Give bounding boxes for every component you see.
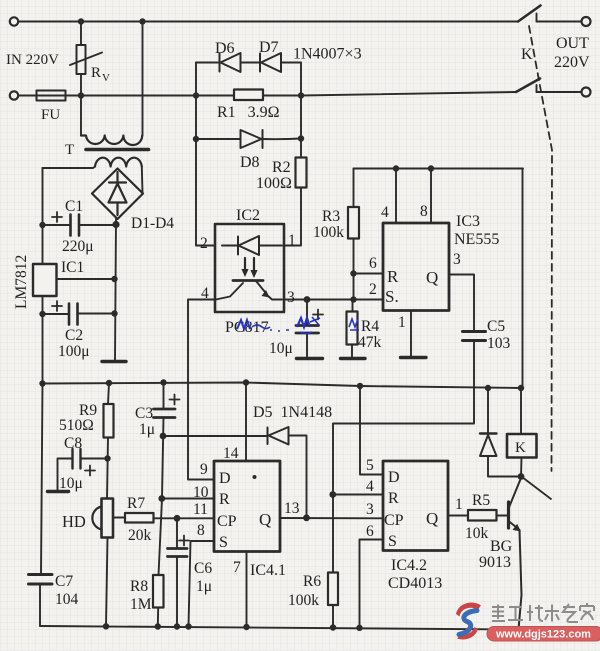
svg-text:D1-D4: D1-D4 — [131, 215, 174, 232]
wire R8 to bus — [157, 608, 159, 627]
wire R9 HD column — [108, 383, 109, 404]
wire HD to R7 — [114, 517, 126, 519]
flyback diode — [480, 388, 521, 477]
node C2 left — [39, 311, 45, 317]
optocoupler IC2 box — [215, 224, 284, 312]
wire L phase top — [18, 21, 518, 23]
svg-text:C7: C7 — [55, 573, 73, 590]
svg-text:4: 4 — [381, 204, 389, 221]
diode D6 — [220, 53, 241, 72]
svg-text:10k: 10k — [465, 525, 489, 542]
transformer T core — [86, 148, 149, 152]
relay coil K box — [507, 434, 537, 458]
IC2 internal LED — [222, 236, 282, 255]
wire R7 to IC4.1 CP — [154, 517, 215, 519]
svg-text:4: 4 — [201, 285, 209, 302]
svg-text:7: 7 — [233, 559, 241, 576]
node wire1-Rv — [78, 18, 84, 24]
node bus emitter — [515, 626, 521, 632]
watermark logo — [456, 603, 481, 640]
resistor R2 — [296, 158, 307, 188]
regulator IC1 box — [33, 264, 57, 296]
capacitor C2 — [43, 301, 113, 325]
resistor R8 — [153, 575, 164, 608]
resistor R9 — [104, 404, 114, 438]
wire NE555 pin6 — [354, 273, 384, 275]
svg-text:100k: 100k — [313, 224, 344, 241]
wire left column lower — [41, 384, 43, 574]
wire +12V mid bus — [43, 383, 522, 389]
svg-text:D6: D6 — [215, 40, 235, 57]
diode D5 — [268, 427, 289, 445]
capacitor C7 — [29, 575, 53, 627]
node bus pin7 — [243, 624, 249, 630]
svg-text:R3: R3 — [322, 208, 340, 225]
capacitor C8 — [58, 449, 108, 490]
node bus left — [39, 380, 45, 386]
wire secondary left lead — [43, 167, 96, 169]
svg-text:OUT: OUT — [556, 35, 589, 52]
svg-text:13: 13 — [284, 500, 300, 517]
wire IC4.1 pin10 — [162, 498, 214, 500]
capacitor C3 — [154, 395, 180, 418]
svg-text:R8: R8 — [130, 578, 148, 595]
diode D8 — [241, 130, 263, 148]
wire R9 to HD — [107, 438, 108, 501]
wire bottom bus — [40, 626, 519, 630]
svg-text:10: 10 — [193, 484, 209, 501]
svg-text:R: R — [91, 65, 101, 81]
svg-text:C3: C3 — [135, 405, 153, 422]
svg-text:CP: CP — [384, 512, 404, 529]
svg-text:LM7812: LM7812 — [13, 255, 30, 309]
blue watermark scribbles — [237, 317, 359, 334]
svg-text:8: 8 — [197, 522, 205, 539]
svg-text:1: 1 — [288, 232, 296, 249]
ground for R4 — [341, 357, 366, 360]
node bus pin5 — [357, 383, 363, 389]
svg-text:R: R — [387, 267, 399, 286]
terminal IN bottom — [10, 91, 18, 99]
wire R3 column — [353, 169, 355, 300]
svg-text:9: 9 — [200, 461, 208, 478]
node R1 left — [193, 92, 199, 98]
svg-text:R5: R5 — [472, 492, 490, 509]
svg-text:R: R — [219, 491, 230, 508]
wire Rv branch — [80, 22, 82, 136]
svg-text:1M: 1M — [130, 596, 152, 613]
wire D8 row right — [263, 138, 302, 141]
svg-text:C8: C8 — [64, 435, 82, 452]
svg-text:5: 5 — [366, 457, 374, 474]
switch K bottom — [516, 79, 582, 93]
svg-text:C2: C2 — [65, 327, 83, 344]
node C2 right — [111, 310, 117, 316]
watermark text dgjs — [492, 603, 594, 622]
svg-text:S: S — [388, 533, 397, 550]
node bus R6 — [330, 624, 336, 630]
node pin8 top — [428, 165, 434, 171]
node IC4.2 pin4 — [329, 491, 336, 498]
wire D5 row — [163, 436, 307, 518]
svg-text:IC4.1: IC4.1 — [250, 562, 286, 579]
svg-text:100k: 100k — [288, 592, 319, 609]
node bus S1 — [185, 623, 191, 629]
svg-text:FU: FU — [41, 107, 60, 123]
node bus relay — [518, 385, 524, 391]
node bus R8 — [155, 623, 161, 629]
wire IC4.1 pin7 — [246, 552, 248, 626]
svg-text:R4: R4 — [361, 318, 379, 335]
node wire2-Rv — [78, 92, 84, 98]
svg-text:R6: R6 — [303, 573, 321, 590]
resistor R4 — [347, 300, 358, 358]
node D8 left — [193, 136, 199, 142]
terminal OUT top — [582, 17, 591, 26]
svg-text:8: 8 — [420, 203, 428, 220]
node D5 left — [160, 433, 167, 440]
fuse FU — [37, 91, 66, 101]
node bus R9 — [106, 380, 112, 386]
svg-text:CD4013: CD4013 — [388, 575, 442, 592]
node C8 tap — [104, 455, 110, 461]
flip-flop IC4.1 box — [214, 461, 280, 552]
wire IC2 pin4 to IC4.1 pin9 — [188, 300, 215, 480]
resistor R7 — [125, 513, 154, 523]
terminal OUT bottom — [582, 88, 591, 97]
svg-text:1: 1 — [398, 314, 406, 331]
transformer T secondary — [95, 158, 142, 167]
svg-text:T: T — [65, 142, 74, 158]
svg-text:3: 3 — [453, 251, 461, 268]
flip-flop IC4.2 box — [383, 461, 448, 551]
IC2 light arrows — [241, 258, 257, 278]
svg-text:10μ: 10μ — [59, 475, 83, 492]
svg-text:14: 14 — [223, 445, 239, 462]
svg-text:9013: 9013 — [479, 554, 511, 571]
wire D8 row left — [196, 138, 241, 140]
wire R6 to bus — [332, 605, 334, 626]
wire D6-D7 branch top — [196, 62, 301, 64]
svg-text:K: K — [521, 46, 533, 63]
svg-text:6: 6 — [366, 523, 374, 540]
svg-text:3: 3 — [366, 501, 374, 518]
sensor HD — [92, 499, 113, 538]
node wire1-primary — [139, 18, 145, 24]
wire D6-D7 branch right riser — [300, 63, 302, 96]
svg-text:NE555: NE555 — [454, 231, 499, 248]
wire relay top — [520, 388, 522, 434]
wire rectifier minus column — [115, 219, 116, 361]
node bus S2 — [356, 625, 362, 631]
resistor R3 — [348, 207, 359, 239]
svg-text:1: 1 — [455, 496, 463, 513]
svg-text:D5 1N4148: D5 1N4148 — [253, 404, 332, 421]
capacitor C6 — [168, 518, 190, 626]
terminal IN top — [10, 17, 18, 25]
svg-text:20k: 20k — [128, 527, 152, 544]
wire IC4.2 pin6 S — [360, 540, 384, 626]
svg-text:1μ: 1μ — [196, 578, 212, 595]
svg-text:6: 6 — [369, 255, 377, 272]
node bus pin14 — [243, 379, 249, 385]
node R1 right — [298, 92, 304, 98]
svg-text:C5: C5 — [487, 318, 505, 335]
wire IC4.1 pin8 S — [189, 541, 215, 626]
wire left column upper — [42, 168, 44, 264]
svg-text:100μ: 100μ — [58, 343, 90, 360]
wire NE555 pin4 — [395, 169, 397, 224]
svg-text:3: 3 — [287, 289, 295, 306]
svg-text:D8: D8 — [240, 154, 260, 171]
wire relay bottom to collector — [520, 458, 523, 478]
node bridge bottom — [112, 221, 119, 228]
svg-text:BG: BG — [490, 538, 513, 555]
ground for 10u cap — [297, 357, 323, 360]
svg-text:C6: C6 — [194, 560, 212, 577]
svg-text:K: K — [515, 440, 526, 456]
svg-text:220V: 220V — [554, 54, 590, 71]
node pin2 row — [350, 296, 356, 302]
wire top supply bus — [354, 169, 524, 389]
svg-text:220μ: 220μ — [62, 238, 94, 255]
node pin10 row — [158, 495, 165, 502]
capacitor C1 — [43, 212, 117, 236]
transformer T primary — [81, 136, 142, 146]
node CP-C6 — [174, 515, 181, 522]
svg-text:Q: Q — [426, 509, 438, 528]
svg-text:IC2: IC2 — [236, 207, 260, 224]
svg-text:510Ω: 510Ω — [59, 417, 94, 434]
diode D7 — [260, 53, 281, 72]
wire R5 to base — [497, 515, 508, 517]
svg-text:D7: D7 — [259, 39, 279, 56]
svg-text:IN 220V: IN 220V — [6, 52, 59, 68]
svg-text:R1 3.9Ω: R1 3.9Ω — [217, 104, 280, 121]
varistor Rv — [70, 45, 102, 74]
capacitor C5 — [463, 332, 486, 389]
svg-text:V: V — [102, 72, 110, 84]
resistor R6 — [328, 573, 338, 606]
wire IC4.2 pin5 — [360, 386, 383, 475]
svg-text:IC3: IC3 — [456, 213, 480, 230]
wire R2 column — [284, 96, 301, 246]
transistor BG 9013 — [509, 478, 522, 630]
svg-text:D: D — [219, 470, 231, 487]
svg-text:S: S — [219, 534, 228, 551]
switch K top — [518, 6, 582, 22]
wire IC4.2 pin4 — [333, 494, 383, 496]
wire D6-D7 branch left riser — [195, 63, 197, 96]
watermark red banner — [487, 627, 600, 642]
svg-text:2: 2 — [369, 281, 377, 298]
label Q in IC4.1 — [253, 475, 257, 479]
node pin4 top — [393, 165, 399, 171]
node pin3 cap — [304, 296, 311, 303]
svg-text:10μ: 10μ — [269, 340, 293, 357]
capacitor 10u on pin3 — [296, 300, 323, 358]
wire IC4.1 pin14 — [245, 383, 247, 462]
wire secondary right lead — [141, 167, 144, 193]
svg-text:IC1: IC1 — [61, 259, 84, 276]
ground for NE555 pin1 — [401, 356, 427, 359]
node IC1 out column — [111, 276, 117, 282]
wire primary right lead — [142, 22, 144, 136]
svg-text:11: 11 — [193, 501, 208, 518]
svg-text:100Ω: 100Ω — [256, 175, 292, 192]
IC2 phototransistor — [216, 281, 282, 300]
node C1 left — [39, 222, 45, 228]
resistor R1 — [234, 90, 263, 101]
dashed relay linkage — [529, 26, 552, 471]
wire C3 down to R8 — [159, 418, 164, 576]
node R3-pin6 — [350, 270, 356, 276]
node D8 right — [298, 135, 304, 141]
svg-text:IC4.2: IC4.2 — [391, 557, 427, 574]
svg-text:CP: CP — [217, 513, 237, 530]
wire NE555 pin8 — [430, 169, 432, 224]
svg-text:C1: C1 — [65, 198, 83, 215]
svg-text:R: R — [388, 490, 399, 507]
svg-text:R7: R7 — [127, 495, 145, 512]
node bus C6 — [174, 623, 180, 629]
node collector — [518, 473, 525, 480]
svg-text:4: 4 — [366, 478, 374, 495]
wire C3 column — [163, 383, 165, 409]
node bus HD — [103, 623, 109, 629]
wire N bottom — [18, 92, 516, 96]
bridge rectifier D1-D4 — [92, 169, 143, 220]
wire NE555 pin3 Q — [449, 275, 474, 332]
timer IC3 NE555 box — [383, 223, 449, 311]
svg-text:1N4007×3: 1N4007×3 — [293, 46, 362, 63]
svg-text:103: 103 — [487, 335, 511, 352]
node bus C3 — [160, 379, 166, 385]
wire C5 bottom to pin4 column — [333, 388, 474, 573]
wire IC4.1 Q13 to IC4.2 CP — [280, 517, 383, 519]
svg-text:1μ: 1μ — [139, 421, 155, 438]
node Q13 — [303, 514, 310, 521]
wire IC2 pin3 row — [284, 299, 383, 301]
wire left column mid — [42, 296, 44, 384]
svg-text:S.: S. — [385, 287, 399, 306]
wire left riser to IC2 pin2 — [196, 96, 215, 246]
relay arm link — [524, 479, 551, 500]
svg-text:HD: HD — [62, 512, 86, 531]
svg-text:R2: R2 — [272, 159, 291, 176]
svg-text:47k: 47k — [358, 334, 382, 351]
svg-text:D: D — [388, 469, 400, 486]
wire NE555 pin1 — [410, 311, 412, 357]
ground near C2 — [102, 360, 126, 363]
ground for C8 — [48, 490, 69, 493]
svg-text:2: 2 — [200, 235, 208, 252]
svg-text:www.dgjs123.com: www.dgjs123.com — [495, 629, 591, 641]
svg-text:104: 104 — [55, 591, 79, 608]
wire HD to bottom bus — [106, 538, 108, 626]
node bus diode — [485, 385, 491, 391]
svg-text:Q: Q — [259, 510, 271, 529]
resistor R5 — [468, 510, 497, 521]
svg-text:Q: Q — [426, 268, 438, 287]
wire IC4.2 Q pin1 — [448, 515, 468, 517]
wire IC1 output — [57, 278, 114, 280]
